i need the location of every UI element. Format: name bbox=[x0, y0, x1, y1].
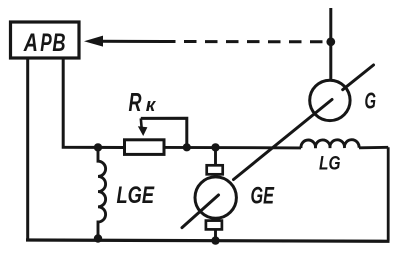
wire: dashed part of feedback line bbox=[163, 40, 328, 43]
wire: right leg from APB down then right to resistor bbox=[63, 60, 124, 148]
svg-text:GE: GE bbox=[251, 183, 275, 210]
shaft line middle segment GE to G center bbox=[234, 100, 333, 180]
wire: GE bottom lead bbox=[214, 230, 217, 241]
node: junction dot LGE top bbox=[94, 143, 102, 151]
wire: left leg from APB down to bottom bus bbox=[26, 60, 29, 241]
wire: GE top lead bbox=[214, 148, 217, 166]
wire: right vertical bus bbox=[387, 147, 390, 241]
svg-text:LG: LG bbox=[319, 152, 341, 174]
node: junction dot LGE bottom bbox=[94, 234, 102, 242]
node: junction dot on generator lead bbox=[326, 37, 335, 46]
wire: main horizontal from resistor to LG coil bbox=[164, 146, 301, 149]
svg-text:к: к bbox=[146, 95, 156, 115]
inductor LGE (exciter field winding) bbox=[98, 148, 106, 239]
feedback arrow into APB bbox=[84, 36, 103, 47]
regulator box APB (U1) bbox=[11, 22, 80, 58]
node: junction dot GE bottom bbox=[211, 236, 219, 244]
shaft line upper segment beyond G bbox=[343, 65, 374, 90]
node: junction dot at tap bbox=[183, 143, 191, 151]
wire: generator output vertical bbox=[329, 8, 332, 81]
svg-text:В: В bbox=[52, 29, 65, 57]
wire: tap jumper from arrow over to right terminal bbox=[141, 118, 187, 147]
generator G circle bbox=[310, 80, 350, 120]
wire: bottom bus bbox=[26, 240, 390, 241]
exciter machine GE: top brush bbox=[207, 165, 223, 174]
rheostat tap arrow bbox=[140, 118, 143, 127]
svg-text:G: G bbox=[365, 88, 377, 114]
shaft line lower segment through GE bbox=[182, 195, 219, 228]
resistor Rk body bbox=[125, 140, 165, 155]
svg-text:Р: Р bbox=[40, 29, 52, 57]
exciter machine GE: bottom brush bbox=[206, 221, 222, 230]
svg-text:А: А bbox=[23, 29, 38, 57]
exciter machine GE: armature circle bbox=[195, 177, 236, 218]
wire: solid part of feedback line bbox=[100, 40, 163, 43]
svg-text:R: R bbox=[129, 89, 142, 117]
node: junction dot GE top bbox=[211, 143, 219, 151]
inductor LG (generator field winding) bbox=[301, 140, 359, 149]
wire: from LG to right bus bbox=[359, 146, 388, 149]
svg-text:LGE: LGE bbox=[117, 182, 155, 209]
